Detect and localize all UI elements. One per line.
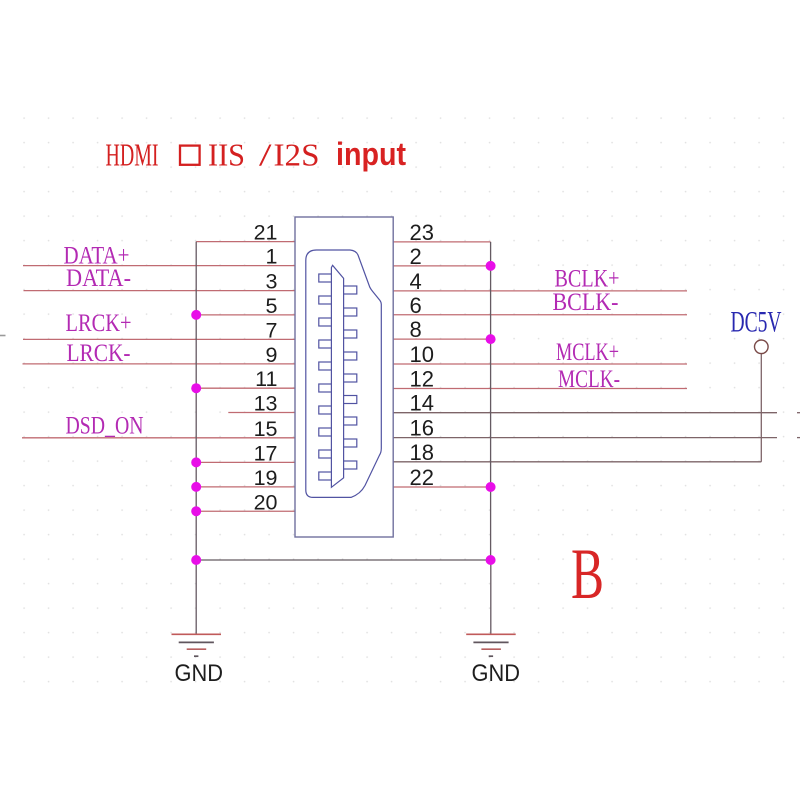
wire pin11 bbox=[196, 387, 295, 389]
connector U1 outer box bbox=[295, 217, 393, 537]
svg-text:23: 23 bbox=[410, 220, 434, 245]
left ground bus bbox=[195, 242, 197, 560]
wire pin19 bbox=[196, 486, 295, 488]
right ground bus bbox=[490, 242, 492, 560]
svg-text:18: 18 bbox=[410, 440, 434, 465]
svg-text:11: 11 bbox=[255, 367, 277, 391]
wire pin23 bbox=[393, 241, 490, 243]
svg-text:HDMI: HDMI bbox=[106, 137, 159, 173]
right ground stem bbox=[490, 560, 492, 634]
svg-text:21: 21 bbox=[254, 221, 278, 245]
svg-text:16: 16 bbox=[410, 416, 434, 441]
blade right teeth (pins) bbox=[344, 286, 357, 469]
wire pin6 BCLK- bbox=[393, 314, 687, 316]
stray tick left edge bbox=[0, 335, 6, 337]
wire pin18 to DC5V bbox=[393, 461, 761, 463]
svg-text:DATA-: DATA- bbox=[66, 265, 131, 292]
wire pin14 bbox=[393, 412, 777, 414]
DC5V terminal circle bbox=[755, 340, 769, 354]
svg-text:8: 8 bbox=[410, 317, 422, 342]
svg-text:MCLK-: MCLK- bbox=[558, 366, 620, 393]
pin numbers left column bbox=[254, 221, 278, 515]
wire pin7 LRCK+ bbox=[23, 338, 295, 340]
bottom ground rail bbox=[196, 559, 490, 561]
svg-text:6: 6 bbox=[410, 293, 422, 318]
svg-text:/: / bbox=[259, 137, 272, 173]
svg-text:DSD_ON: DSD_ON bbox=[66, 413, 144, 440]
pin numbers right column bbox=[410, 220, 434, 490]
svg-text:20: 20 bbox=[254, 490, 278, 514]
wire pin17 bbox=[196, 461, 295, 463]
svg-text:3: 3 bbox=[266, 270, 278, 294]
svg-text:5: 5 bbox=[266, 294, 278, 318]
svg-text:14: 14 bbox=[410, 391, 434, 416]
svg-text:B: B bbox=[571, 534, 604, 614]
svg-text:19: 19 bbox=[254, 466, 278, 490]
left ground stem bbox=[195, 560, 197, 634]
svg-text:MCLK+: MCLK+ bbox=[556, 339, 619, 366]
svg-text:15: 15 bbox=[254, 417, 278, 441]
wire pin1 DATA+ bbox=[23, 265, 295, 267]
wire pin16 edge remnant bbox=[797, 437, 800, 439]
svg-text:DC5V: DC5V bbox=[731, 306, 782, 339]
wire pin9 LRCK- bbox=[23, 363, 296, 365]
svg-text:2: 2 bbox=[410, 244, 422, 269]
svg-text:IIS: IIS bbox=[208, 137, 245, 173]
HDMI center blade bbox=[331, 265, 343, 487]
wire pin5 bbox=[196, 314, 295, 316]
wire pin15 DSD_ON bbox=[22, 437, 295, 439]
svg-text:12: 12 bbox=[410, 367, 434, 392]
wire pin21 bbox=[196, 241, 295, 243]
wire pin20 bbox=[196, 510, 295, 512]
svg-text:input: input bbox=[336, 136, 406, 172]
title kou square glyph bbox=[180, 146, 200, 165]
svg-text:LRCK+: LRCK+ bbox=[66, 310, 132, 337]
wire pin10 MCLK+ bbox=[393, 363, 687, 365]
wire pin13 stub bbox=[228, 412, 295, 414]
wire pin22 bbox=[393, 486, 490, 488]
svg-text:4: 4 bbox=[410, 269, 422, 294]
svg-text:BCLK-: BCLK- bbox=[553, 289, 619, 316]
HDMI socket outline bbox=[306, 250, 382, 497]
wire pin12 MCLK- bbox=[393, 388, 687, 390]
svg-text:13: 13 bbox=[254, 392, 278, 416]
blade left teeth (pins) bbox=[319, 274, 332, 480]
wire pin16 bbox=[393, 437, 777, 439]
wire pin8 bbox=[393, 338, 490, 340]
svg-text:LRCK-: LRCK- bbox=[67, 340, 131, 367]
svg-text:7: 7 bbox=[266, 318, 278, 342]
svg-text:9: 9 bbox=[266, 343, 278, 367]
svg-text:22: 22 bbox=[410, 465, 434, 490]
svg-text:GND: GND bbox=[472, 660, 521, 687]
svg-text:17: 17 bbox=[254, 441, 278, 465]
DC5V stem bbox=[760, 354, 762, 462]
wire pin14 edge remnant bbox=[797, 412, 800, 414]
wire pin2 bbox=[393, 265, 490, 267]
ground symbol right bbox=[466, 634, 516, 656]
svg-text:GND: GND bbox=[175, 660, 224, 687]
junction dots right bus bbox=[486, 261, 496, 565]
svg-text:1: 1 bbox=[266, 245, 278, 269]
ground symbol left bbox=[172, 634, 222, 656]
svg-text:I2S: I2S bbox=[274, 137, 320, 173]
svg-text:10: 10 bbox=[410, 342, 434, 367]
wire pin3 DATA- bbox=[24, 290, 296, 292]
wire pin4 BCLK+ bbox=[393, 290, 687, 292]
junction dots left bus bbox=[191, 310, 201, 565]
